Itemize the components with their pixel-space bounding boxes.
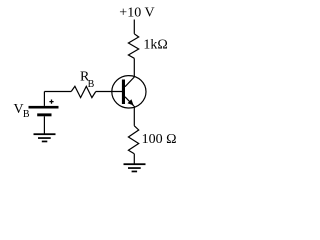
- svg-text:B: B: [88, 79, 95, 90]
- svg-text:+10 V: +10 V: [119, 6, 154, 21]
- svg-text:100 Ω: 100 Ω: [142, 132, 177, 147]
- svg-text:B: B: [23, 109, 30, 120]
- svg-text:1kΩ: 1kΩ: [143, 38, 167, 53]
